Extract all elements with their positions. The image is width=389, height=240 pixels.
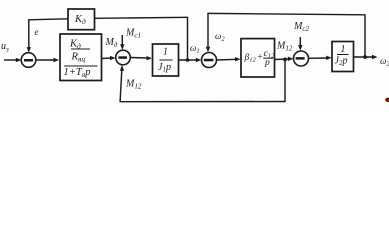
block 1/(J2 p) xyxy=(332,42,354,72)
block Kд (EMF gain) xyxy=(68,9,95,30)
svg-text:+: + xyxy=(257,53,263,63)
wire: elasticity block to S4 with tap node xyxy=(275,57,294,62)
label u_з (input voltage) xyxy=(1,41,9,54)
svg-text:e: e xyxy=(35,27,39,37)
wire: S1 to armature block xyxy=(36,58,59,62)
summing junction S2 xyxy=(116,50,131,65)
label M_с1 xyxy=(125,28,141,40)
input M_с2 arrow into S4 xyxy=(298,37,302,51)
svg-text:1: 1 xyxy=(163,47,168,58)
label M_12 (shaft torque) xyxy=(276,41,293,53)
wire: input to summing junction S1 xyxy=(4,58,21,62)
label e xyxy=(35,27,39,37)
svg-text:1+Tяp: 1+Tяp xyxy=(64,67,91,79)
svg-text:p: p xyxy=(264,58,270,68)
label ω_2 (output) xyxy=(380,56,389,68)
summing junction S4 xyxy=(294,51,309,66)
input M_с1 arrow into S2 xyxy=(120,35,124,50)
block 1/(J1 p) xyxy=(153,44,179,76)
block β12 + c12/p xyxy=(241,39,275,77)
svg-text:1: 1 xyxy=(341,44,346,55)
summing junction S3 xyxy=(202,53,217,68)
background paper xyxy=(0,0,389,110)
label ω_1 xyxy=(190,43,200,55)
wire: S2 to block 1/J1p xyxy=(131,56,153,60)
ω2 feedback wire: tap up from output, left along top, down into S3 xyxy=(206,13,366,57)
wire: 1/J1p to S3 with tap node xyxy=(179,58,202,62)
label ω_2 (top, into S3) xyxy=(215,31,225,43)
output wire with tap node xyxy=(354,55,378,59)
block armature circuit (Кд/Rяц)/(1+Tя p) xyxy=(60,34,102,81)
label M_12 (feedback, bottom) xyxy=(125,79,142,91)
e feedback wire: tap up from ω1 node, left through Kд block, down into S1 xyxy=(27,17,189,60)
scan speck (bottom-right edge) xyxy=(385,98,389,102)
wire: S3 to elasticity block xyxy=(217,57,241,61)
M12 feedback wire: down, left along bottom, up into S2 xyxy=(120,59,286,101)
label M_с2 xyxy=(293,21,309,33)
label M_д xyxy=(105,37,118,49)
wire: armature block to S2 xyxy=(102,56,116,60)
wire: S4 to block 1/J2p xyxy=(309,56,332,60)
summing junction S1 xyxy=(21,53,36,68)
